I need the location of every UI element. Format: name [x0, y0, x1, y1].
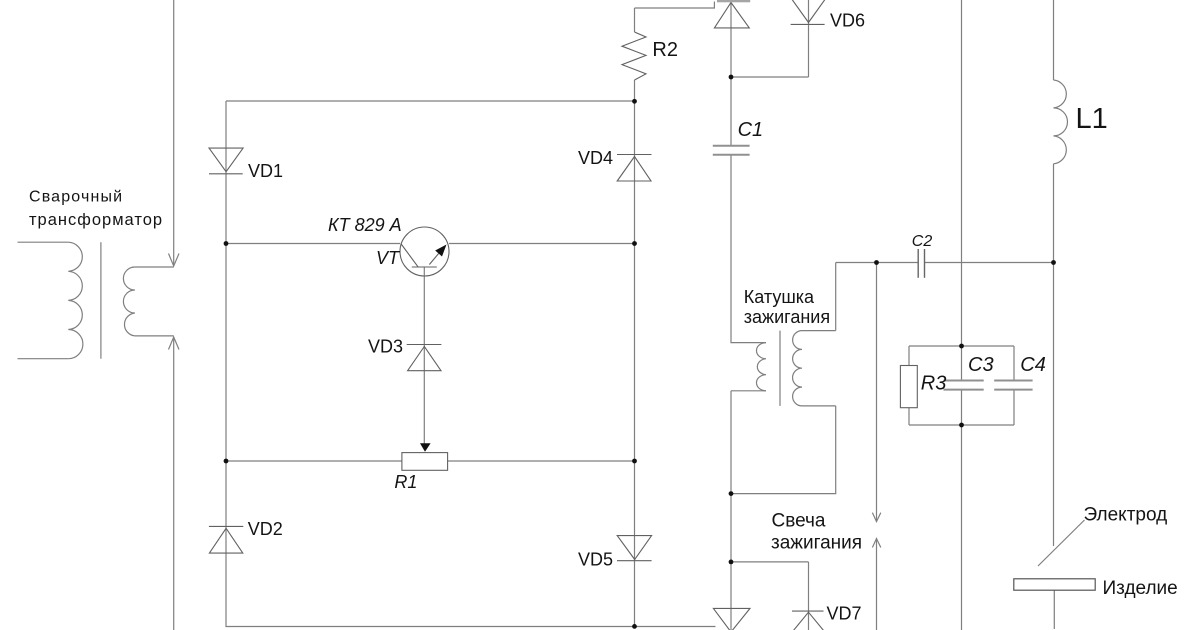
svg-text:R2: R2 [652, 39, 678, 61]
svg-text:C2: C2 [912, 233, 933, 250]
svg-text:VD5: VD5 [578, 549, 613, 569]
svg-text:R1: R1 [394, 472, 417, 492]
svg-text:трансформатор: трансформатор [29, 211, 163, 229]
svg-text:VD7: VD7 [827, 604, 862, 624]
svg-text:Электрод: Электрод [1084, 505, 1168, 526]
svg-text:зажигания: зажигания [744, 307, 830, 327]
svg-text:Катушка: Катушка [744, 287, 815, 307]
svg-text:КТ 829 А: КТ 829 А [328, 215, 402, 235]
svg-text:VD2: VD2 [248, 519, 283, 539]
svg-text:Сварочный: Сварочный [29, 189, 123, 206]
svg-text:VD6: VD6 [830, 10, 865, 30]
svg-text:Свеча: Свеча [772, 511, 826, 532]
svg-text:R3: R3 [921, 372, 947, 394]
svg-text:VD1: VD1 [248, 161, 283, 181]
svg-text:C3: C3 [968, 354, 994, 376]
svg-text:VD3: VD3 [368, 336, 403, 356]
svg-text:VD4: VD4 [578, 148, 613, 168]
svg-text:L1: L1 [1076, 103, 1108, 135]
svg-text:C1: C1 [738, 119, 764, 141]
svg-text:VT: VT [376, 248, 401, 268]
svg-text:C4: C4 [1020, 354, 1046, 376]
svg-text:Изделие: Изделие [1103, 578, 1178, 599]
svg-text:зажигания: зажигания [771, 533, 862, 554]
